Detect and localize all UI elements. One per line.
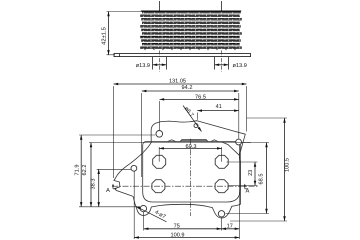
dimension o13.9 left — [153, 64, 167, 66]
svg-text:100.9: 100.9 — [171, 233, 185, 239]
leader 4-o7 — [136, 206, 167, 222]
dimension o13.9 right — [215, 64, 229, 66]
leader o6.7 — [183, 106, 202, 132]
small hole o6.7 top — [194, 124, 198, 128]
mounting hole bottom-right — [218, 211, 224, 217]
dimension 38.3 — [97, 168, 131, 170]
svg-text:60.3: 60.3 — [186, 144, 197, 150]
dimension 76.5 — [159, 101, 161, 130]
svg-text:17: 17 — [227, 224, 233, 230]
section arrow A right — [244, 184, 249, 189]
base plate (side view) — [114, 54, 251, 57]
svg-text:ø13.9: ø13.9 — [136, 63, 150, 69]
flange outer gasket outline — [114, 121, 245, 218]
svg-text:94.2: 94.2 — [182, 85, 193, 91]
dimension 71.9 — [79, 134, 156, 136]
svg-text:ø13.9: ø13.9 — [233, 63, 247, 69]
port boss octagon top-right — [215, 155, 228, 168]
dimension 23 — [227, 161, 258, 163]
vertical centerline of flange — [189, 139, 191, 216]
left port centerline — [159, 51, 161, 72]
mounting hole top-left — [156, 131, 163, 138]
dimension 100.9 — [133, 171, 135, 239]
mounting hole left lobe — [131, 165, 137, 171]
svg-text:A: A — [106, 188, 110, 194]
port boss octagon bottom-left — [152, 180, 165, 193]
svg-text:23: 23 — [248, 170, 254, 176]
svg-text:42±1.5: 42±1.5 — [100, 27, 107, 45]
dimension 68.5 — [242, 142, 269, 144]
fin stack outline — [141, 10, 241, 12]
svg-text:38.3: 38.3 — [90, 179, 96, 190]
mounting hole top-right — [236, 139, 242, 145]
core top bump left — [168, 140, 176, 142]
svg-text:68.5: 68.5 — [258, 174, 264, 185]
dimension 75 and 17 — [143, 212, 145, 231]
port boss octagon top-left — [153, 155, 166, 168]
dimension 42+-1.5 — [107, 11, 143, 13]
dimension 60.3 — [158, 147, 160, 162]
fin stack (cooler core, top view) — [140, 11, 242, 50]
svg-text:76.5: 76.5 — [195, 94, 206, 100]
svg-text:131.05: 131.05 — [169, 79, 186, 85]
fin stack centerline right (top view) — [221, 1, 223, 11]
left port tube lines — [152, 57, 154, 70]
svg-text:71.9: 71.9 — [74, 165, 80, 176]
svg-text:41: 41 — [216, 104, 222, 110]
flange inner return line near top-right V — [223, 142, 240, 155]
mounting hole bottom-left — [140, 205, 146, 211]
svg-text:A: A — [246, 188, 250, 194]
port boss octagon bottom-right — [215, 180, 228, 193]
svg-text:62.2: 62.2 — [82, 165, 88, 176]
dimension 94.2 — [141, 93, 143, 177]
right port centerline — [221, 51, 223, 72]
svg-text:100.5: 100.5 — [285, 158, 291, 172]
core top tab (raised) — [180, 140, 208, 142]
dimension 100.5 — [247, 117, 288, 119]
dimension 131.05 — [113, 86, 115, 178]
fin stack centerline left (top view) — [159, 1, 161, 11]
section arrow A left — [112, 184, 117, 189]
section centerline A-A horizontal — [112, 185, 258, 187]
core top bump right — [211, 140, 218, 142]
svg-text:75: 75 — [174, 224, 180, 230]
dimension 41 — [196, 113, 198, 120]
dimension 62.2 — [89, 142, 251, 144]
base plate step — [119, 54, 121, 57]
core plate rounded rectangle — [143, 142, 241, 203]
right port tube lines — [214, 57, 216, 70]
